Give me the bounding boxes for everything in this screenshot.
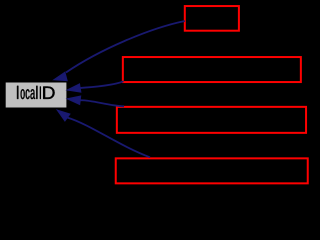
node N4: third red box (caller 3) — [117, 107, 306, 133]
edge/wire from node N4 to localID — [80, 100, 124, 106]
arrowhead of edge N4->localID — [67, 96, 81, 105]
node N2: top red box (caller 1) — [185, 6, 239, 31]
node N5: bottom red box (caller 4) — [116, 158, 308, 183]
arrowhead of edge N3->localID — [67, 84, 81, 93]
node localID (current node, gray fill) — [6, 83, 67, 108]
arrowhead of edge N5->localID — [57, 110, 70, 121]
edge/wire from node N5 to localID — [68, 118, 151, 158]
label localID — [17, 86, 55, 99]
edge/wire from node N2 to localID — [66, 21, 185, 73]
edge/wire from node N3 to localID — [80, 81, 123, 88]
arrowhead of edge N2->localID — [53, 72, 67, 81]
node N3: second red box (caller 2) — [123, 57, 301, 82]
